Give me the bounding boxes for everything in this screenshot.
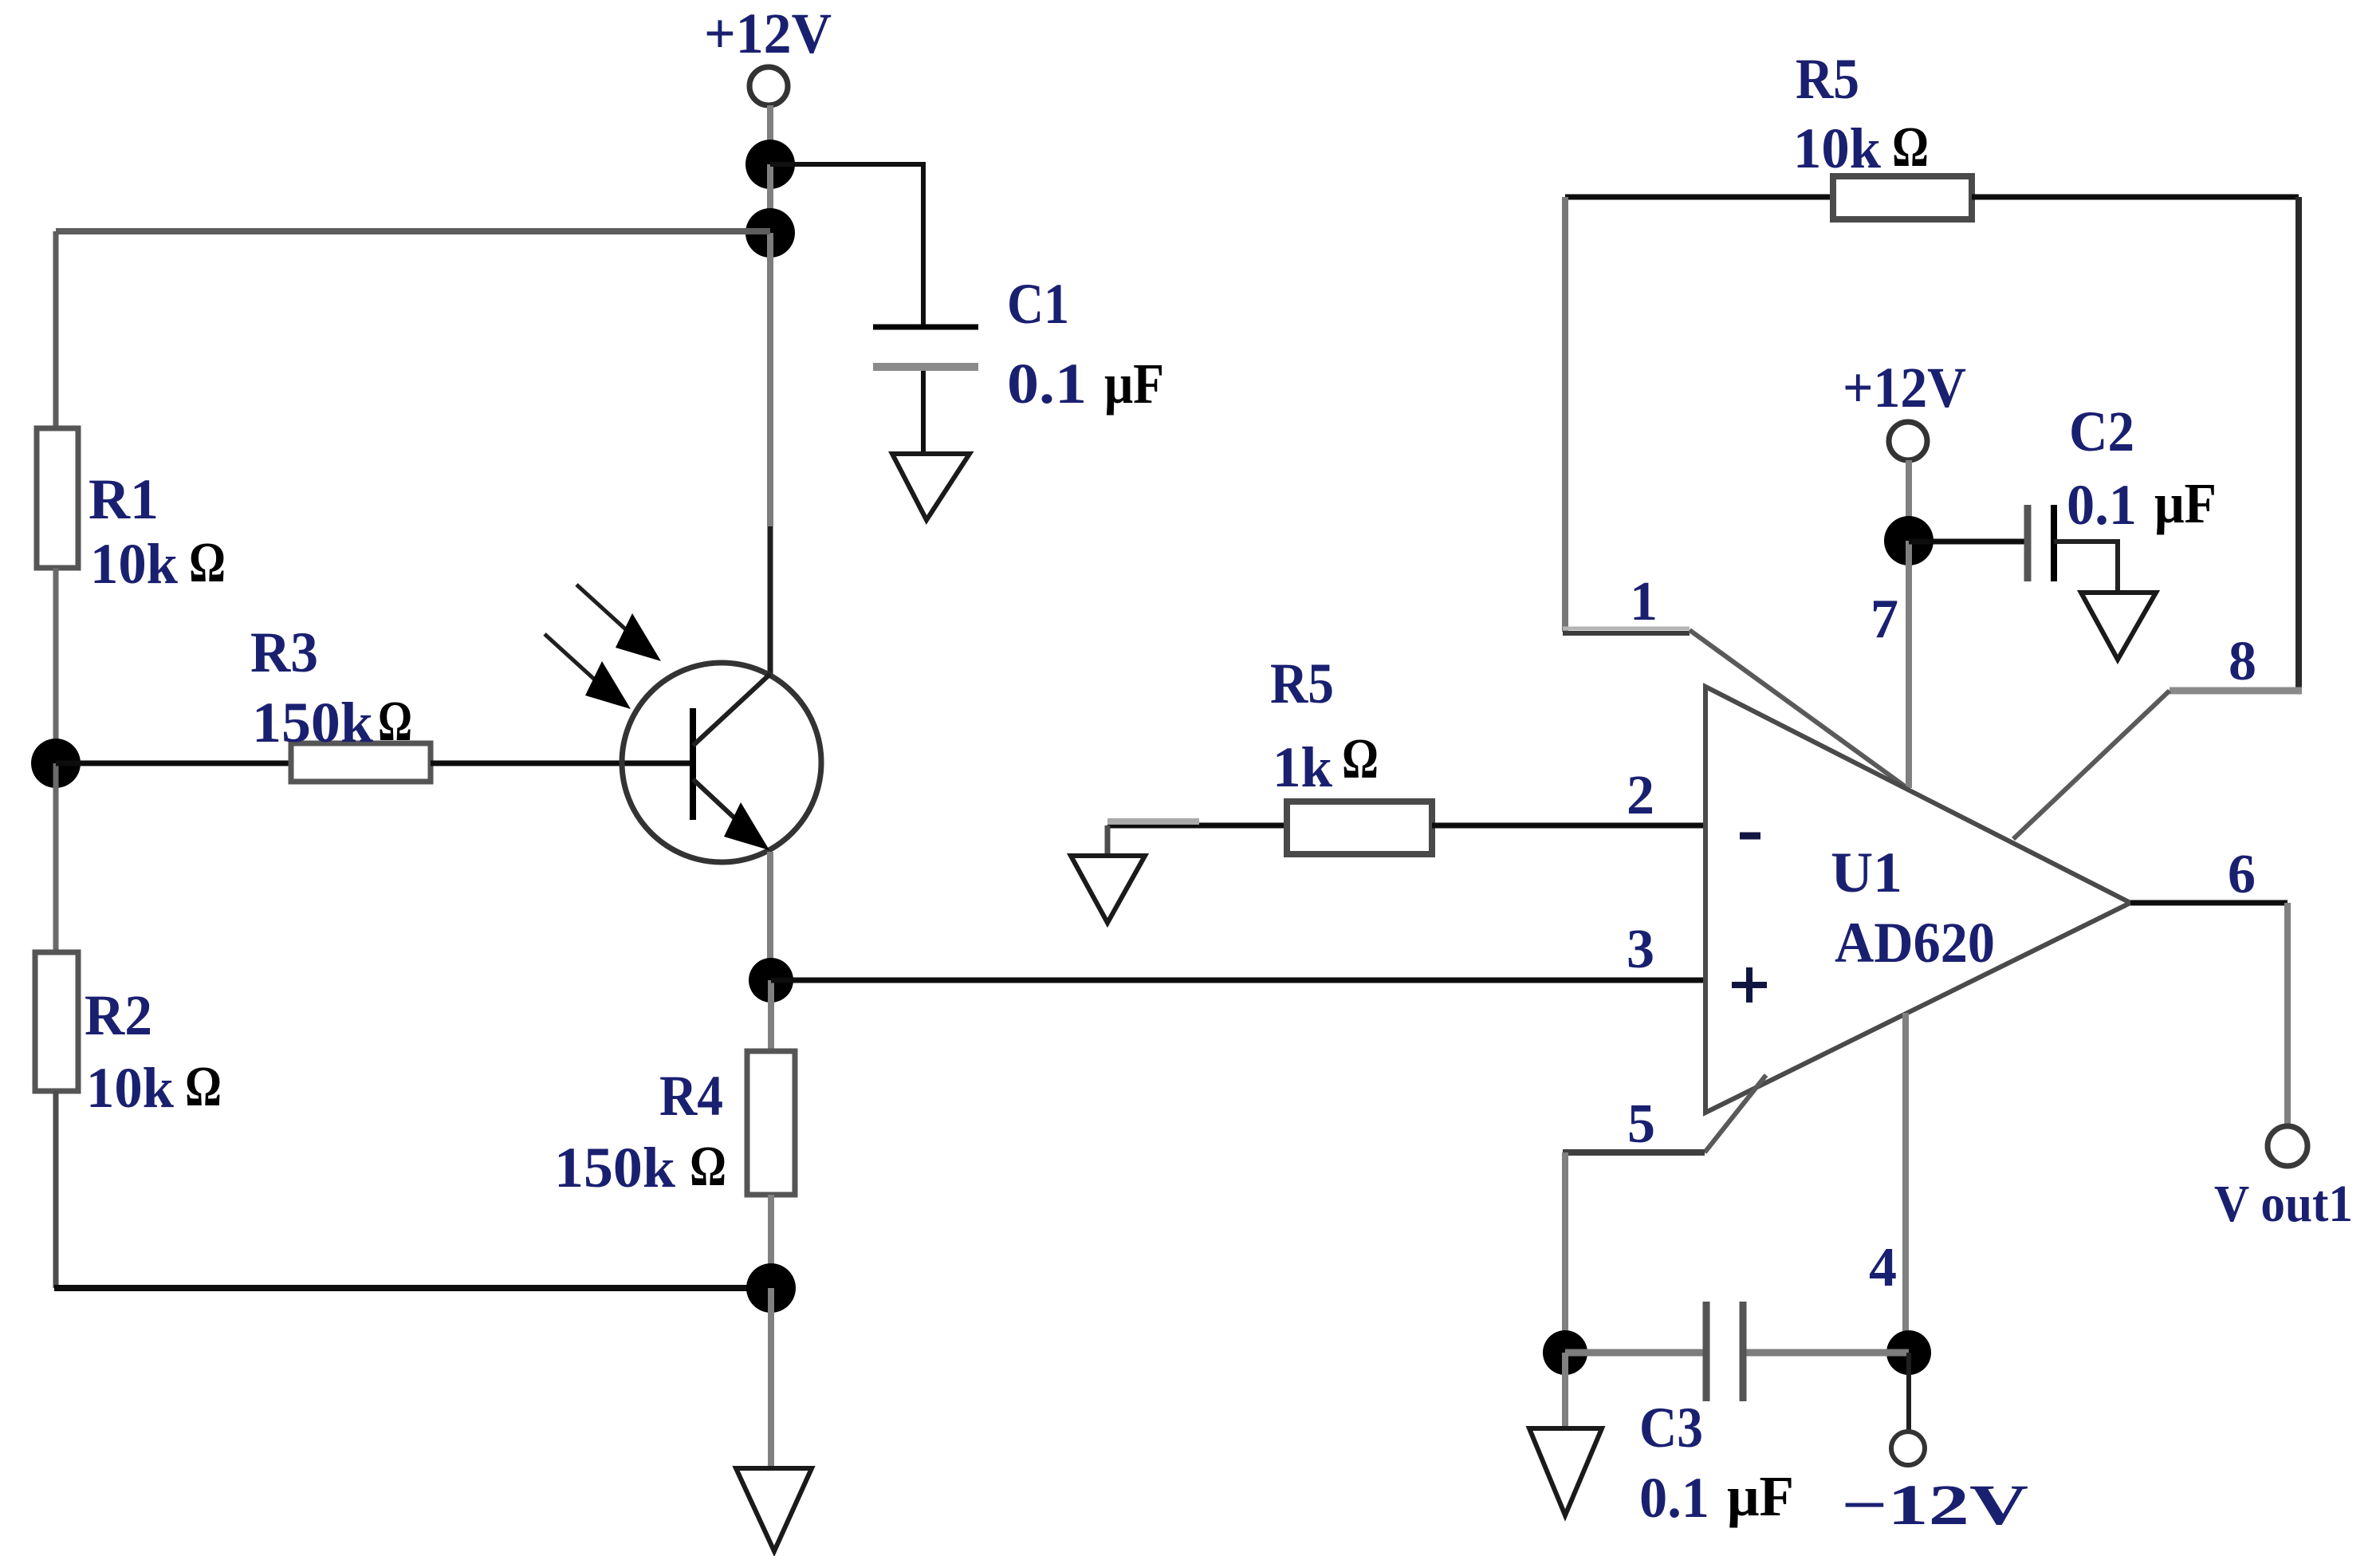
svg-text:Ω: Ω xyxy=(1342,727,1379,790)
svg-text:Ω: Ω xyxy=(185,1054,222,1118)
svg-text:0.1: 0.1 xyxy=(1639,1466,1709,1530)
svg-text:10k: 10k xyxy=(1793,116,1881,180)
svg-text:R1: R1 xyxy=(89,467,159,531)
svg-text:V out1: V out1 xyxy=(2214,1175,2353,1233)
svg-text:μF: μF xyxy=(2154,471,2217,535)
svg-text:−12V: −12V xyxy=(1841,1473,2028,1537)
svg-text:C3: C3 xyxy=(1639,1396,1703,1459)
svg-text:R2: R2 xyxy=(85,983,152,1047)
svg-text:1: 1 xyxy=(1630,571,1658,632)
svg-text:4: 4 xyxy=(1869,1237,1897,1298)
svg-text:8: 8 xyxy=(2229,631,2256,692)
svg-text:10k: 10k xyxy=(86,1056,174,1120)
svg-text:Ω: Ω xyxy=(1892,115,1929,179)
svg-text:5: 5 xyxy=(1627,1093,1655,1155)
svg-text:1k: 1k xyxy=(1273,735,1332,799)
svg-text:10k: 10k xyxy=(90,532,178,596)
svg-text:μF: μF xyxy=(1104,352,1164,416)
svg-text:R3: R3 xyxy=(250,620,318,684)
svg-text:Ω: Ω xyxy=(189,530,226,594)
svg-text:6: 6 xyxy=(2228,844,2256,905)
svg-text:AD620: AD620 xyxy=(1835,911,1995,975)
svg-text:R5: R5 xyxy=(1270,652,1334,715)
svg-text:7: 7 xyxy=(1871,589,1898,650)
svg-text:U1: U1 xyxy=(1831,841,1902,904)
svg-text:3: 3 xyxy=(1627,919,1654,980)
svg-text:R4: R4 xyxy=(659,1064,723,1128)
svg-text:150k: 150k xyxy=(554,1136,675,1199)
svg-text:C2: C2 xyxy=(2069,400,2134,463)
svg-text:0.1: 0.1 xyxy=(1007,352,1087,416)
svg-text:2: 2 xyxy=(1627,765,1654,826)
svg-text:+12V: +12V xyxy=(1843,356,1966,420)
svg-text:+12V: +12V xyxy=(704,2,832,65)
svg-text:C1: C1 xyxy=(1007,272,1069,336)
svg-text:μF: μF xyxy=(1727,1464,1794,1528)
svg-text:Ω: Ω xyxy=(378,689,412,753)
svg-text:150k: 150k xyxy=(252,691,373,754)
svg-text:Ω: Ω xyxy=(690,1134,726,1198)
svg-text:R5: R5 xyxy=(1796,47,1859,111)
svg-text:0.1: 0.1 xyxy=(2067,473,2137,537)
